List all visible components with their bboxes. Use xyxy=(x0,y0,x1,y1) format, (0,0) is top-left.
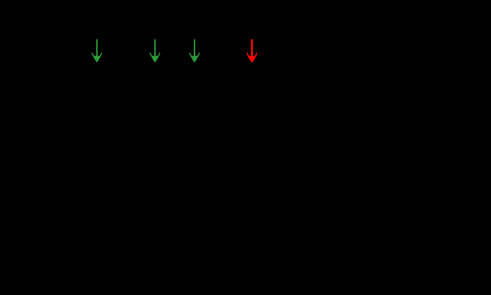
wire branch 1 xyxy=(96,75,98,115)
wire from source to bottom xyxy=(44,160,46,245)
current arrow I2 (green) xyxy=(150,39,161,62)
wire left branch down xyxy=(44,75,46,110)
svg-text:R4: R4 xyxy=(266,135,283,150)
svg-text:R1: R1 xyxy=(111,135,128,150)
resistor R1 xyxy=(87,115,107,170)
wire branch 2 lower xyxy=(154,170,156,245)
svg-text:I4: I4 xyxy=(259,40,270,55)
node D xyxy=(250,73,255,78)
resistor R4 xyxy=(242,115,262,170)
wire branch 4 lower xyxy=(251,170,253,245)
wire branch 1 lower xyxy=(96,170,98,245)
wire branch 3 lower xyxy=(194,170,196,245)
wire branch 3 xyxy=(194,75,196,115)
resistor R3 xyxy=(185,115,205,170)
wire top bus xyxy=(45,74,440,76)
wire bottom bus xyxy=(45,244,440,246)
resistor R5 xyxy=(430,115,450,170)
node C xyxy=(192,73,197,78)
current arrow I3 (green) xyxy=(189,39,200,62)
svg-text:R2: R2 xyxy=(169,135,186,150)
svg-text:R3: R3 xyxy=(208,135,225,150)
wire right branch xyxy=(439,75,441,115)
current arrow I4 (red) xyxy=(247,39,258,62)
svg-text:I2: I2 xyxy=(162,40,173,55)
node A xyxy=(95,73,100,78)
svg-text:I3: I3 xyxy=(201,40,212,55)
current source IS1 xyxy=(20,110,70,160)
resistor R2 xyxy=(145,115,165,170)
svg-text:I1: I1 xyxy=(104,40,115,55)
current arrow I1 (green) xyxy=(91,39,102,62)
ground xyxy=(233,245,257,268)
wire branch 2 xyxy=(154,75,156,115)
svg-text:IS1: IS1 xyxy=(8,128,28,143)
svg-text:R5: R5 xyxy=(454,135,471,150)
node B xyxy=(153,73,158,78)
wire right branch lower xyxy=(439,170,441,245)
wire branch 4 xyxy=(251,75,253,115)
